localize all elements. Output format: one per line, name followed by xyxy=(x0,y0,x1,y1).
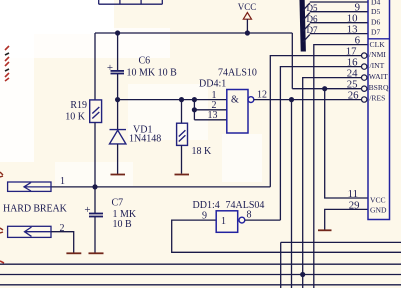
wire /NMI line xyxy=(270,56,361,187)
ground 18K xyxy=(175,174,190,176)
svg-text:9: 9 xyxy=(202,211,207,222)
svg-text:D5: D5 xyxy=(371,7,380,16)
svg-text:13: 13 xyxy=(208,110,218,121)
svg-text:10 B: 10 B xyxy=(113,219,133,230)
svg-text:/RES: /RES xyxy=(369,94,385,103)
node VCC stem junction xyxy=(245,30,250,35)
capacitor C7 xyxy=(89,214,103,217)
wire DD1:4 output xyxy=(245,219,281,221)
wire input branch vertical xyxy=(193,100,195,120)
wire /INT line xyxy=(280,67,361,221)
gate DD4:1 (3-input NAND) xyxy=(227,90,248,134)
svg-text:10 MK 10 B: 10 MK 10 B xyxy=(127,68,178,79)
wire gate output /RES net xyxy=(254,99,362,101)
white patch top-left xyxy=(0,0,114,34)
wire bus line 5 xyxy=(0,284,401,286)
wire BSRQ line xyxy=(292,88,361,90)
wire bus line 4 xyxy=(0,274,401,276)
svg-text:DD4:1: DD4:1 xyxy=(199,79,226,90)
white patch left strip xyxy=(0,30,34,162)
wire D4 pin line xyxy=(310,1,368,3)
capacitor C6 xyxy=(111,71,125,74)
svg-text:C6: C6 xyxy=(139,56,151,67)
bus (thick data bus) xyxy=(302,0,303,52)
svg-text:18 K: 18 K xyxy=(192,146,213,157)
gate output bubble xyxy=(248,97,254,103)
svg-text:1N4148: 1N4148 xyxy=(129,134,161,145)
wire to pin11 xyxy=(325,89,368,198)
top cropped component (tick box bottom) xyxy=(99,0,163,4)
wire VCC rail drop to BSRQ xyxy=(291,33,293,89)
svg-text:VCC: VCC xyxy=(370,195,386,204)
white patch above arrow1 xyxy=(55,162,133,186)
ground chip GND xyxy=(318,229,332,231)
ground VD1 xyxy=(111,174,126,176)
resistor R19 xyxy=(90,100,102,123)
wire 18K bottom xyxy=(181,145,183,173)
wire D7 pin line xyxy=(310,33,368,35)
bus entry slash D6 xyxy=(303,24,310,32)
chip pin bubbles xyxy=(362,53,367,58)
svg-text:1: 1 xyxy=(60,176,65,187)
wire VCC stem xyxy=(246,19,248,33)
wire /RES branch down xyxy=(291,100,293,288)
wire VCC to R19 xyxy=(94,33,96,100)
svg-text:WAIT: WAIT xyxy=(369,72,388,81)
wire bus line 2 / DD1:4 input xyxy=(172,220,401,252)
svg-text:D7: D7 xyxy=(371,28,380,37)
svg-text:29: 29 xyxy=(349,199,360,211)
chip pin name labels xyxy=(369,0,389,214)
wire arrow2 to ground xyxy=(51,232,74,253)
node C6/VD1 junction xyxy=(115,97,120,102)
wire HARD BREAK 1 xyxy=(51,186,270,188)
node C6 tap junction xyxy=(115,30,120,35)
white patch top band xyxy=(0,28,170,58)
svg-text:/INT: /INT xyxy=(370,61,385,70)
svg-text:HARD BREAK: HARD BREAK xyxy=(3,204,68,215)
diode VD1 xyxy=(110,130,127,144)
bus entry slash D5 xyxy=(303,13,310,21)
chip U1 box xyxy=(368,0,390,220)
svg-text:CLK: CLK xyxy=(370,40,386,49)
gate DD1:4 output bubble xyxy=(239,217,245,223)
svg-text:26: 26 xyxy=(348,89,359,101)
svg-text:C7: C7 xyxy=(112,198,124,209)
gate DD1:4 (inverter) xyxy=(216,211,238,233)
svg-text:2: 2 xyxy=(60,223,65,234)
node input-branch junction xyxy=(192,97,197,102)
svg-text:BSRQ: BSRQ xyxy=(369,83,389,92)
wire C7 top xyxy=(94,187,96,213)
svg-text:GND: GND xyxy=(370,205,387,214)
port arrow 2 xyxy=(8,226,51,237)
node X line (gate inputs) xyxy=(118,99,227,101)
svg-text:R19: R19 xyxy=(70,100,87,111)
wire C6 bottom xyxy=(117,74,119,100)
ground arrow2 xyxy=(66,252,81,254)
chip section divider xyxy=(368,38,390,40)
left edge red/black dash marks xyxy=(5,46,9,81)
svg-text:1: 1 xyxy=(221,216,226,227)
resistor 18K xyxy=(177,123,188,145)
svg-text:+: + xyxy=(107,62,113,74)
svg-text:D4: D4 xyxy=(371,0,380,7)
VCC triangle symbol xyxy=(243,13,251,20)
svg-text:12: 12 xyxy=(257,90,267,101)
svg-text:8: 8 xyxy=(247,210,252,221)
svg-text:&: & xyxy=(231,95,239,106)
wire bus line 3 xyxy=(0,263,401,265)
wire VD1 to ground xyxy=(117,144,119,174)
port arrow 1 xyxy=(8,182,51,191)
wire C7 to ground xyxy=(94,217,96,253)
svg-text:+: + xyxy=(84,204,90,216)
wire VCC rail xyxy=(95,32,292,34)
wire CLK line xyxy=(314,45,368,288)
wire C6 top xyxy=(117,33,119,70)
wire WAIT line xyxy=(303,78,362,288)
wire D6 pin line xyxy=(310,22,368,24)
svg-text:DD1:4: DD1:4 xyxy=(193,200,220,211)
white patch below gate xyxy=(222,134,262,182)
wire D5 pin line xyxy=(310,11,368,13)
svg-text:VCC: VCC xyxy=(238,2,257,12)
bus entry slash D7 xyxy=(303,35,310,43)
node R19/C7 on HB line xyxy=(92,184,97,189)
svg-text:/NMI: /NMI xyxy=(369,50,386,59)
svg-text:10 K: 10 K xyxy=(65,112,86,123)
node BSRQ/VCC-pin11 xyxy=(322,86,327,91)
wire 18K top xyxy=(181,100,183,124)
wire gate pin2 xyxy=(194,109,226,111)
wire gate pin13 xyxy=(194,119,226,121)
wire VD1 anode xyxy=(117,100,119,129)
ground C7 xyxy=(89,252,104,254)
node WAIT/bus xyxy=(300,272,305,277)
node /RES branch xyxy=(289,97,294,102)
wire bus line 1 xyxy=(281,242,401,288)
wire pin29 to ground xyxy=(325,209,368,229)
wire R19 bottom xyxy=(94,123,96,187)
node 18K junction xyxy=(179,97,184,102)
pin numbers right column xyxy=(346,2,361,212)
svg-text:11: 11 xyxy=(348,188,358,200)
svg-text:74ALS04: 74ALS04 xyxy=(226,200,265,211)
svg-text:74ALS10: 74ALS10 xyxy=(218,68,257,79)
white patch near VD1 xyxy=(128,84,208,140)
svg-text:D6: D6 xyxy=(371,17,380,26)
bus entry slash D4 xyxy=(303,3,310,11)
left edge cut label marks xyxy=(0,172,3,177)
